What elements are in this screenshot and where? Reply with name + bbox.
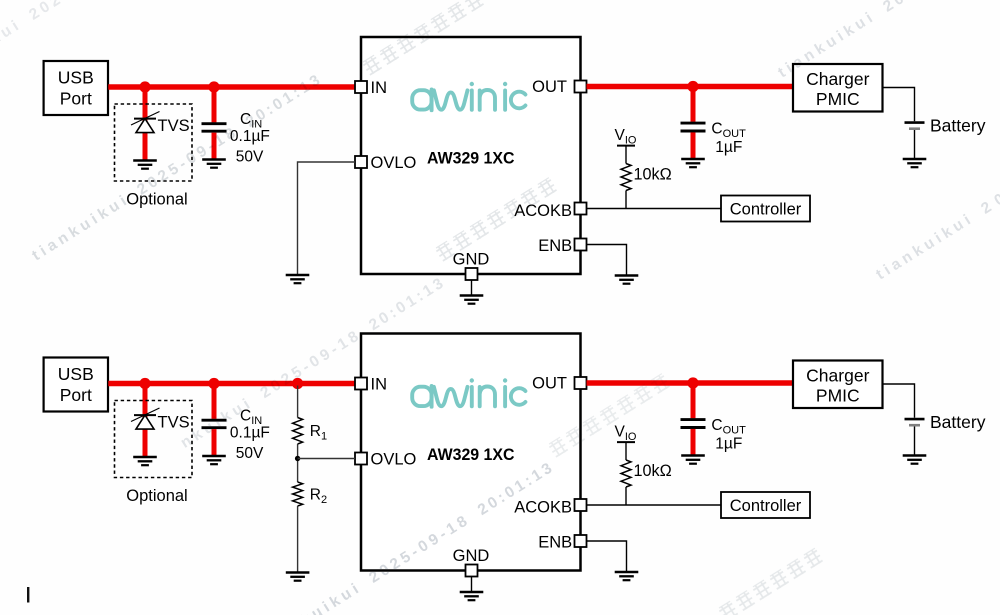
svg-text:Charger: Charger (806, 69, 869, 89)
pin OVLO (355, 156, 367, 168)
svg-text:USB: USB (58, 68, 94, 88)
wire: OUT red bus to Charger PMIC (587, 84, 794, 90)
wire: CIN to ground (212, 429, 217, 455)
ground (OVLO) (286, 274, 310, 276)
svg-text:Battery: Battery (930, 115, 986, 135)
TVS diode (131, 408, 160, 422)
ground (ENB) (615, 571, 639, 573)
USB Port box (circuit 1) (44, 61, 108, 115)
wire: battery to ground (914, 427, 916, 456)
wire: Charger PMIC to Battery (883, 88, 915, 122)
pin OUT (575, 81, 587, 93)
wire: GND pin to ground (471, 280, 473, 295)
wire: R2 to ground (297, 506, 299, 572)
capacitor CIN (202, 122, 227, 125)
wire: CIN to ground (212, 133, 217, 159)
pin ACOKB (575, 499, 587, 511)
svg-text:ACOKB: ACOKB (514, 202, 572, 220)
wire: ACOKB to Controller (587, 208, 722, 210)
wire: R1 to R2 (297, 444, 299, 482)
op IC U2 AW3291XC body (361, 334, 581, 571)
optional dashed enclosure (115, 104, 193, 181)
wire: Charger PMIC to Battery (883, 384, 915, 418)
pin ACOKB (575, 203, 587, 215)
ground (battery) (903, 454, 927, 456)
pin IN (355, 378, 367, 390)
TVS diode (131, 112, 160, 126)
svg-text:OUT: OUT (532, 78, 567, 96)
svg-text:Battery: Battery (930, 412, 986, 432)
svg-text:GND: GND (453, 547, 490, 565)
capacitor COUT (681, 418, 706, 421)
wire: ACOKB to Controller (587, 504, 722, 506)
capacitor CIN (202, 419, 227, 422)
ground (TVS) (133, 159, 157, 161)
svg-text:IN: IN (371, 375, 388, 393)
svg-text:10kΩ: 10kΩ (634, 462, 672, 480)
junction node: divider tap to OVLO (295, 456, 300, 461)
text cursor artifact (27, 587, 29, 603)
wire: OVLO to ground (298, 162, 356, 275)
USB Port box (circuit 2) (44, 358, 108, 412)
junction: OUT bus / COUT branch (687, 377, 698, 388)
junction: bus / CIN branch (208, 378, 219, 389)
ground (IC GND) (460, 591, 484, 593)
wire: VBUS red bus from USB Port to IN pin (108, 84, 355, 90)
wire: battery to ground (914, 130, 916, 159)
resistor R pull-up 10k (621, 460, 631, 487)
pin GND (466, 565, 478, 577)
resistor R pull-up 10k (621, 164, 631, 191)
svg-text:PMIC: PMIC (816, 385, 860, 405)
pin OUT (575, 377, 587, 389)
wire: red drop to CIN (212, 87, 217, 122)
Controller box (721, 492, 810, 518)
svg-text:10kΩ: 10kΩ (634, 165, 672, 183)
svg-text:TVS: TVS (158, 413, 190, 431)
ground (IC GND) (460, 294, 484, 296)
wire: GND pin to ground (471, 577, 473, 592)
ground (battery) (903, 158, 927, 160)
wire: VIO to resistor (625, 442, 627, 460)
svg-text:0.1µF: 0.1µF (230, 424, 270, 441)
ground (COUT) (681, 158, 705, 160)
junction: OUT bus / COUT branch (687, 81, 698, 92)
pin ENB (575, 535, 587, 547)
ground (CIN) (202, 455, 226, 457)
svg-text:Controller: Controller (730, 497, 802, 515)
resistor R2 (293, 482, 303, 506)
ground (R2) (286, 571, 310, 573)
battery cell (905, 418, 925, 421)
svg-text:Optional: Optional (126, 191, 187, 209)
svg-text:ENB: ENB (538, 237, 572, 255)
Controller box (721, 196, 810, 222)
wire: COUT to ground (691, 429, 696, 455)
capacitor COUT (681, 122, 706, 125)
svg-text:1µF: 1µF (715, 139, 742, 156)
svg-text:Controller: Controller (730, 200, 802, 218)
pin GND (466, 268, 478, 280)
svg-text:Port: Port (60, 385, 92, 405)
wire: red drop to COUT (691, 383, 696, 418)
wire: red drop to TVS (143, 87, 148, 160)
wire: resistor to ACOKB net (625, 191, 627, 209)
ground (CIN) (202, 158, 226, 160)
wire: resistor to ACOKB net (625, 487, 627, 505)
svg-text:USB: USB (58, 364, 94, 384)
ground (TVS) (133, 456, 157, 458)
svg-text:OVLO: OVLO (371, 154, 417, 172)
junction: bus / TVS branch (139, 378, 150, 389)
svg-text:50V: 50V (236, 445, 264, 462)
wire: red drop to COUT (691, 87, 696, 122)
battery cell (905, 121, 925, 124)
wire: red drop to TVS (143, 384, 148, 457)
Charger PMIC box (793, 361, 883, 409)
Charger PMIC box (793, 64, 883, 112)
svg-text:ENB: ENB (538, 534, 572, 552)
wire: VBUS red bus from USB Port to IN pin (108, 381, 355, 387)
wire: bus to R1 (297, 386, 299, 418)
svg-text:AW329 1XC: AW329 1XC (427, 445, 515, 464)
svg-text:OUT: OUT (532, 374, 567, 392)
ground (ENB) (615, 274, 639, 276)
pin OVLO (355, 453, 367, 465)
op IC U1 AW3291XC body (361, 37, 581, 274)
wire: ENB to ground (587, 541, 627, 572)
junction: bus / CIN branch (208, 81, 219, 92)
svg-text:50V: 50V (236, 148, 264, 165)
svg-text:OVLO: OVLO (371, 451, 417, 469)
junction: bus / TVS branch (139, 81, 150, 92)
wire: OUT red bus to Charger PMIC (587, 380, 794, 386)
wire: ENB to ground (587, 245, 627, 276)
junction: bus / R1 divider branch (292, 378, 303, 389)
svg-text:AW329 1XC: AW329 1XC (427, 148, 515, 167)
wire: COUT to ground (691, 132, 696, 158)
resistor R1 (293, 418, 303, 445)
svg-text:Port: Port (60, 89, 92, 109)
svg-text:Optional: Optional (126, 487, 187, 505)
pin ENB (575, 239, 587, 251)
ground (COUT) (681, 454, 705, 456)
optional dashed enclosure (115, 401, 193, 478)
svg-text:ACOKB: ACOKB (514, 499, 572, 517)
pin IN (355, 81, 367, 93)
wire: divider tap to OVLO pin (298, 458, 355, 460)
awinic logo (412, 82, 525, 110)
svg-text:PMIC: PMIC (816, 89, 860, 109)
svg-text:TVS: TVS (158, 117, 190, 135)
svg-text:1µF: 1µF (715, 436, 742, 453)
wire: VIO to resistor (625, 146, 627, 164)
svg-text:GND: GND (453, 250, 490, 268)
svg-text:IN: IN (371, 79, 388, 97)
awinic logo (412, 378, 525, 406)
svg-text:Charger: Charger (806, 365, 869, 385)
wire: red drop to CIN (212, 384, 217, 419)
